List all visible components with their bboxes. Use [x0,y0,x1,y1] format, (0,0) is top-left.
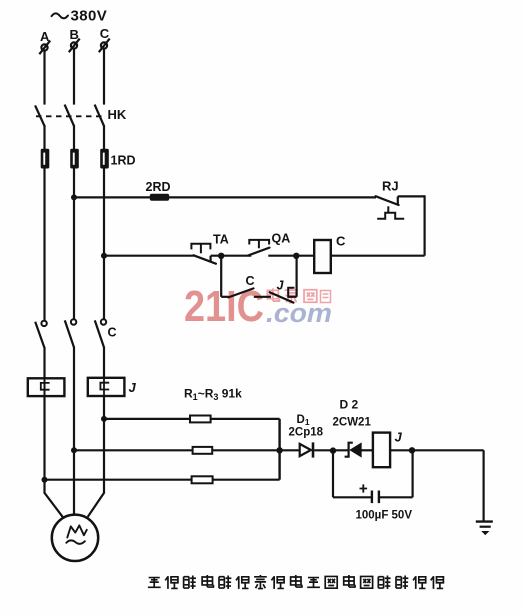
svg-text:J: J [395,430,403,445]
zener D2 [345,443,361,457]
wire control branch from C [104,255,194,257]
node capacitor tap [330,447,336,453]
contactor contact C phase B [65,319,77,347]
switch HK linkage (dashed) [36,115,103,117]
pushbutton QA (NO) [249,240,269,248]
coil J [373,433,390,468]
node B-2RD junction [71,194,77,200]
wire capacitor branch bottom right [380,496,413,498]
fuse 1RD phase C [100,149,109,169]
diode D1 [300,442,313,457]
wire A contact to heater [43,347,45,378]
wire holding branch right rise [296,256,298,297]
svg-text:J: J [129,380,137,395]
wire 2RD branch [74,196,376,198]
svg-text:380V: 380V [71,8,108,25]
wire QA to coil C [268,255,314,257]
wire phase C top [103,49,105,105]
svg-text:100µF 50V: 100µF 50V [356,510,413,522]
wire star bus vertical [278,419,280,480]
terminal B [69,39,80,53]
switch HK pole A [35,105,44,126]
wire coil C to right drop [331,255,425,257]
wire C heater to resistor tap [103,396,105,419]
wire B to motor [73,450,75,515]
svg-text:QA: QA [272,232,291,246]
thermal actuator RJ [377,206,404,218]
wire capacitor branch bottom left [333,496,371,498]
wire TA to QA [211,255,252,257]
svg-text:2CW21: 2CW21 [333,417,372,429]
wire ground drop [483,450,485,521]
switch HK pole C [95,105,104,126]
wire A heater to resistor tap [43,396,45,480]
wire B contact down [73,347,75,450]
contact C (NO self-hold) [228,288,253,297]
node C-line tap [101,253,107,259]
resistor R2 [193,447,213,454]
svg-text:C: C [108,326,117,340]
svg-text:B: B [70,27,79,42]
resistor R3 [192,476,213,483]
switch HK pole B [65,105,74,126]
wire to contact C [221,296,228,298]
wire phase A top [43,51,45,105]
relay contact RJ (NC thermal) [376,196,399,205]
caption 三角形电动机零序电压继电器断相保护 [148,575,444,589]
contactor contact C phase C [95,319,106,347]
wire B fuse to contact [73,169,75,320]
wire phase B top [73,49,75,105]
wire between contacts [254,296,271,298]
svg-text:RJ: RJ [382,179,399,194]
svg-text:2RD: 2RD [146,180,171,194]
svg-text:A: A [40,29,50,44]
node TA junction [218,253,224,259]
wire C fuse to contact [103,169,105,320]
node C tap [101,416,107,422]
svg-text:C: C [100,26,110,41]
terminal A [39,41,50,55]
svg-text:1RD: 1RD [111,154,136,168]
heater element box (phase A) [28,378,65,396]
ground [476,522,493,535]
wire C switch to fuse [103,125,105,149]
fuse 2RD [150,194,169,201]
svg-text:D 2: D 2 [340,398,359,412]
wire B switch to fuse [73,125,75,149]
wire capacitor branch right rise [412,450,414,497]
resistor R1 [190,416,211,423]
svg-text:C: C [246,274,255,288]
capacitor polarity + [360,484,368,492]
terminal C [99,39,110,53]
motor M [52,515,98,561]
wire coil J to ground drop [390,449,484,451]
wire A switch to fuse [43,125,45,149]
motor letter M [66,525,87,543]
wire C to motor [88,419,104,517]
wire holding branch left drop [220,256,222,297]
wire capacitor branch left drop [332,451,334,498]
fuse 1RD phase A [41,149,50,169]
node star point [276,447,282,453]
svg-text:2Cp18: 2Cp18 [289,427,324,439]
node J output [409,447,415,453]
wire D1 to D2 [314,449,348,451]
wire right drop to C-coil line [424,195,426,255]
svg-text:HK: HK [108,107,127,122]
coil C [314,240,331,273]
node A tap [42,477,48,483]
svg-text:J: J [277,279,285,293]
fuse 1RD phase B [70,149,79,169]
node QA junction [293,253,299,259]
svg-text:TA: TA [213,233,229,247]
node B tap [71,447,77,453]
contact J (NC) [270,288,297,303]
wire C contact to heater [103,347,105,378]
~380V power label [52,13,69,18]
capacitor 100uF [372,491,379,504]
heater element box (phase C) [88,378,125,396]
wire resistor row 3 [45,479,280,481]
wire resistor row 1 [104,418,280,420]
svg-text:C: C [336,234,346,249]
wire RJ to corner [398,195,425,197]
pushbutton TA (NC) [191,244,210,254]
contactor contact C phase A [35,321,47,348]
watermark 电子网 [267,288,330,302]
wire A to motor [45,480,63,517]
wire A fuse to contact [43,169,45,321]
wire resistor row 2 [74,449,300,451]
wire D2 to coil J [361,449,373,451]
